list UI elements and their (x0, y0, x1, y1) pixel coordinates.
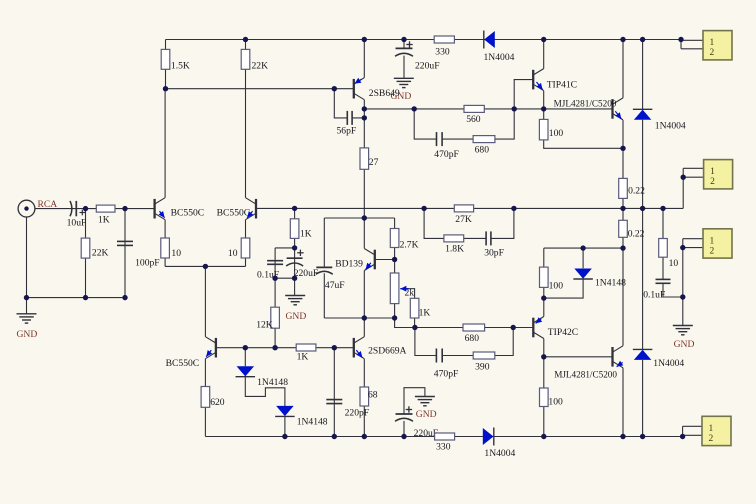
capacitor 0.1uF right (656, 278, 671, 280)
transistor Q8 TIP42C (PNP driver) (532, 318, 534, 338)
connector J1 (+V) (703, 31, 732, 60)
wire 1K bias bottom (414, 318, 416, 328)
transistor Q10 2SD669A (NPN VAS) (353, 338, 355, 358)
svg-text:100: 100 (549, 128, 564, 139)
wire right GND column (682, 239, 684, 326)
wire 0.1uF/12K column x=275.1 (274, 248, 276, 348)
wire connector J1 stubs (681, 40, 703, 49)
resistor 10 output (659, 239, 668, 258)
svg-text:1: 1 (710, 236, 715, 246)
connector J2 (output) (704, 160, 733, 189)
wire tail down to Q3 collector (204, 266, 206, 336)
svg-text:30pF: 30pF (484, 248, 504, 259)
transistor Q4 2SB649 (PNP) (353, 79, 355, 99)
wire 220pF column x=334.3 (333, 348, 335, 437)
diode D2 1N4004 right upper (633, 108, 653, 110)
svg-text:1K: 1K (297, 352, 309, 363)
svg-text:1: 1 (710, 167, 715, 177)
resistor 10 left (161, 238, 170, 258)
resistor 68 (360, 387, 369, 406)
svg-text:2.7K: 2.7K (400, 240, 419, 251)
svg-text:BC550C: BC550C (171, 208, 205, 219)
svg-text:0.1uF: 0.1uF (643, 290, 665, 301)
svg-text:100: 100 (548, 397, 563, 408)
wire speaker Zobel column x=663 (663, 208, 683, 297)
svg-text:2: 2 (710, 177, 715, 187)
ground GND right (673, 325, 693, 327)
svg-text:2k: 2k (405, 289, 415, 299)
resistor 100 lower (540, 388, 549, 407)
junction dots (243, 37, 248, 42)
resistor 10 right (241, 238, 250, 258)
svg-text:330: 330 (435, 47, 450, 58)
wire TIP41C base drop (514, 80, 533, 109)
wire 680 row y=327.5 (415, 327, 513, 329)
svg-text:MJL4281/C5200: MJL4281/C5200 (554, 99, 617, 109)
resistor 27K feedback (454, 205, 473, 212)
svg-text:1N4004: 1N4004 (484, 448, 515, 459)
wire Q3 emitter through 620 to -V rail (204, 359, 206, 437)
svg-text:GND: GND (674, 339, 695, 350)
wire VAS column x=364.3 (363, 40, 365, 337)
wire BD139 base link (375, 259, 395, 261)
resistor 1K input (96, 205, 115, 212)
svg-text:10: 10 (171, 248, 181, 259)
svg-text:2SD669A: 2SD669A (368, 346, 406, 357)
svg-text:1K: 1K (98, 215, 110, 226)
wire driver bias row y=248.1 (544, 248, 623, 298)
wire output column x=623.0 with 0.22 resistors (622, 148, 624, 436)
wire 1N4148 right branch (544, 248, 583, 298)
wire MJL4281 upper emitter (622, 120, 624, 148)
svg-text:68: 68 (368, 390, 378, 401)
svg-text:BC550C: BC550C (166, 358, 200, 369)
resistor 680 lower (463, 324, 485, 331)
resistor 1K bias (410, 298, 419, 318)
ground GND bottom-mid (415, 396, 435, 398)
capacitor 100pF input (117, 240, 133, 242)
svg-text:1N4004: 1N4004 (484, 52, 515, 63)
wire 220uF top column (403, 40, 405, 78)
wire TIP42C base (513, 327, 533, 329)
wire 47uF column (323, 218, 325, 318)
wire diode ladder step (1N4148 pair) (245, 348, 285, 437)
svg-text:330: 330 (436, 442, 451, 453)
svg-text:BC550C: BC550C (217, 208, 251, 219)
resistor 0.22 lower (619, 220, 628, 237)
wire 2SD669A emitter through 68 to rail (363, 359, 365, 437)
wire bias chain x=394.6 (395, 248, 415, 328)
resistor 12K (271, 307, 280, 328)
wire Vbe-multiplier bottom y=318 (324, 317, 394, 319)
capacitor 47uF (316, 266, 332, 268)
svg-text:1N4004: 1N4004 (653, 358, 684, 369)
wire 22K column to Q2 collector (245, 40, 247, 198)
svg-text:220pF: 220pF (345, 408, 370, 419)
diode D7 1N4004 bottom rail (493, 428, 495, 446)
wire Q3 base line (y=347.7) to 2SD669A (216, 347, 354, 349)
wire -V bottom rail (205, 436, 682, 438)
capacitor 0.1uF left (267, 260, 283, 262)
resistor 100 driver-bias (540, 267, 549, 287)
svg-text:620: 620 (210, 397, 225, 408)
capacitor 56pF (346, 111, 348, 125)
svg-text:1N4004: 1N4004 (655, 121, 686, 132)
wire feedback shunt column (1K/220uF x=294.6) (294, 208, 296, 278)
transistor Q2 BC550C input right (NPN, mirrored) (255, 199, 257, 219)
resistor 620 (201, 387, 210, 408)
svg-text:1: 1 (710, 38, 715, 48)
wire 0.1uF top link y=247.9 (275, 247, 295, 249)
wire 22K input column (85, 209, 87, 298)
svg-text:TIP42C: TIP42C (548, 327, 578, 338)
wire 470pF/680 row y=139.1 (414, 109, 514, 139)
diode D1 1N4004 top rail (483, 31, 485, 49)
wire TIP42C collector to MJL lower base y=356.8 (544, 356, 613, 358)
wire 47uF branch top y=218 (324, 217, 364, 219)
svg-text:56pF: 56pF (337, 126, 357, 137)
capacitor 10uF input (70, 201, 72, 216)
svg-text:47uF: 47uF (325, 280, 345, 291)
wire output/feedback line (y=208.4) (255, 207, 683, 209)
svg-text:1.8K: 1.8K (445, 244, 464, 255)
wire connector J4 stubs (683, 426, 702, 436)
svg-text:10uF: 10uF (67, 218, 87, 229)
wire 220uF bottom column (404, 388, 425, 437)
resistor 22K input (81, 238, 90, 258)
svg-text:12K: 12K (256, 320, 273, 331)
wire base line of 2SB649 (y=88.7) (166, 88, 354, 90)
svg-text:1.5K: 1.5K (171, 61, 190, 72)
resistor 330 top (434, 36, 454, 43)
svg-text:22K: 22K (92, 248, 109, 259)
resistor 1K feedback shunt (290, 219, 299, 239)
wire connector J2 stubs (683, 168, 703, 208)
wire 56pF branch (334, 89, 364, 118)
transistor Q6 TIP41C (NPN driver) (532, 70, 534, 90)
svg-text:2: 2 (710, 246, 715, 256)
svg-text:GND: GND (286, 311, 307, 322)
resistor 22K upper (241, 49, 250, 69)
resistor 2.7K (390, 229, 399, 248)
resistor 560 (464, 105, 484, 112)
svg-text:2SB649: 2SB649 (369, 88, 400, 99)
wire 1.5K column (165, 40, 167, 89)
svg-text:1N4148: 1N4148 (297, 417, 328, 428)
svg-text:2: 2 (709, 434, 714, 444)
resistor 330 bottom (435, 433, 455, 440)
wire 470pF/390 row y=355.5 (415, 328, 513, 356)
wire feedback RC branch (424, 208, 514, 238)
svg-text:GND: GND (416, 409, 437, 420)
transistor Q7 MJL4281/C5200 upper output (NPN) (611, 99, 613, 119)
svg-text:GND: GND (17, 329, 38, 340)
svg-text:220uF: 220uF (415, 61, 440, 72)
wire MJL4281 upper collector to rail (622, 40, 624, 98)
transistor Q3 BC550C current source (NPN, mirrored) (215, 338, 217, 358)
wire 100pF input column (124, 209, 126, 298)
wire tail join (y=266.4) (165, 265, 245, 267)
svg-text:2: 2 (710, 48, 715, 58)
svg-text:470pF: 470pF (434, 369, 459, 380)
capacitor 220pF (326, 399, 342, 401)
ground GND input (17, 313, 37, 315)
svg-text:0.22: 0.22 (628, 186, 645, 197)
capacitor 220uF bottom (396, 413, 413, 415)
svg-text:220uF: 220uF (294, 268, 319, 279)
svg-text:680: 680 (475, 145, 490, 156)
wire TIP42C emitter column (543, 298, 545, 436)
wire Q2 emitter to 10R and tail (245, 220, 247, 267)
svg-text:27: 27 (369, 157, 379, 168)
svg-text:470pF: 470pF (434, 149, 459, 160)
wire GND stem mid (294, 278, 296, 295)
resistor 0.22 upper (619, 178, 628, 198)
svg-text:MJL4281/C5200: MJL4281/C5200 (554, 370, 617, 380)
svg-text:TIP41C: TIP41C (547, 80, 577, 91)
wire TIP41C emitter to 100R (544, 91, 623, 149)
wire trimmer wiper to 1K (404, 289, 415, 299)
potentiometer 2k (390, 273, 399, 304)
transistor Q5 BD139 (Vbe multiplier, mirrored) (374, 250, 376, 270)
wire input shunt bottom (y=297.6) (27, 297, 126, 299)
svg-text:10: 10 (669, 258, 679, 269)
svg-text:22K: 22K (252, 61, 269, 72)
resistor 100 upper (539, 119, 548, 139)
wire RCA ground column (26, 217, 28, 314)
connector RCA jack (18, 200, 35, 217)
svg-text:680: 680 (465, 333, 480, 344)
capacitor 220uF top (396, 47, 413, 49)
wire 2.7K top link (364, 218, 394, 229)
svg-text:27K: 27K (455, 214, 472, 225)
resistor 680 upper (473, 136, 495, 143)
wire 220uF-mid bottom link y=278.2 (275, 277, 295, 279)
wire connector J3 stubs (683, 239, 703, 248)
svg-text:390: 390 (475, 362, 490, 373)
ground GND mid (285, 295, 305, 297)
wire input node to Q1 base (35, 208, 155, 210)
svg-text:1N4148: 1N4148 (257, 377, 288, 388)
resistor 1.5K (161, 49, 170, 69)
svg-text:100pF: 100pF (135, 258, 160, 269)
wire Q1 collector (164, 89, 166, 198)
svg-text:1: 1 (709, 424, 714, 434)
wire +V top rail (166, 39, 682, 41)
connector J3 (ground) (703, 229, 732, 258)
resistor 390 (473, 352, 495, 359)
diode D5 1N4148 right (573, 278, 593, 280)
wire Q1 emitter to 10R and tail (164, 220, 166, 267)
svg-text:BD139: BD139 (335, 259, 363, 270)
transistor Q9 MJL4281/C5200 lower output (PNP) (611, 347, 613, 367)
svg-text:560: 560 (466, 114, 481, 125)
connector J4 (-V) (702, 416, 731, 445)
wire flyback diode column x=642.6 (642, 40, 644, 437)
svg-text:100: 100 (549, 281, 564, 292)
svg-text:1N4148: 1N4148 (595, 278, 626, 289)
diode D6 1N4004 right lower (633, 348, 653, 350)
svg-text:1K: 1K (419, 308, 431, 319)
transistor Q1 BC550C input left (NPN) (153, 199, 155, 219)
ground GND top (394, 77, 414, 79)
svg-text:1K: 1K (300, 229, 312, 240)
svg-text:10: 10 (228, 248, 238, 259)
capacitor 470pF upper (436, 132, 438, 146)
capacitor 220uF mid (287, 257, 303, 259)
resistor 27 (360, 148, 369, 169)
capacitor 30pF (485, 231, 487, 245)
svg-text:RCA: RCA (38, 199, 58, 210)
wire TIP41C collector to rail (543, 40, 545, 69)
resistor 1.8K (444, 235, 464, 242)
svg-text:0.22: 0.22 (628, 229, 645, 240)
resistor 1K horizontal (y=347.7) (296, 344, 316, 351)
wire collector line y=108.9 (2SB649 to MJL4281 base) (364, 108, 612, 110)
diode D3 1N4148 (236, 376, 256, 378)
capacitor 470pF lower (435, 349, 437, 363)
diode D4 1N4148 (275, 415, 295, 417)
